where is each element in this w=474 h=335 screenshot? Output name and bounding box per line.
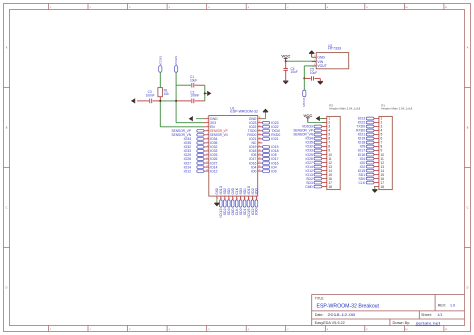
svg-text:10uF: 10uF [310, 71, 317, 75]
P1 pin 3 [374, 126, 379, 128]
svg-text:17: 17 [224, 198, 226, 200]
svg-text:VCC3V3: VCC3V3 [302, 98, 306, 107]
P2 pin 13 [322, 166, 327, 168]
resistor R1 [158, 88, 163, 97]
svg-text:1: 1 [207, 117, 208, 119]
P2 pin 14 [322, 170, 327, 172]
svg-text:22: 22 [244, 198, 246, 200]
svg-text:1: 1 [314, 56, 315, 58]
title block [312, 294, 465, 325]
svg-text:13: 13 [206, 166, 208, 168]
P1 pin 13 [374, 166, 379, 168]
svg-text:3: 3 [207, 125, 208, 127]
svg-text:18: 18 [381, 185, 385, 189]
P1 pin 17 [374, 182, 379, 184]
svg-text:VOUT: VOUT [317, 64, 326, 68]
svg-text:19: 19 [232, 198, 234, 200]
svg-text:serialx.net: serialx.net [416, 321, 442, 325]
svg-text:IO12: IO12 [184, 169, 191, 173]
ground flag P2 pin1 [320, 118, 325, 120]
svg-text:25: 25 [256, 198, 258, 200]
U1 right pin IO19 [258, 146, 263, 148]
op-amp U2 HT7333 [316, 53, 349, 69]
svg-text:Drawn By:: Drawn By: [393, 321, 411, 325]
svg-text:16: 16 [220, 198, 222, 200]
svg-text:1.0: 1.0 [450, 303, 455, 307]
ground flag [283, 80, 288, 82]
svg-text:26: 26 [259, 166, 261, 168]
svg-text:VCC: VCC [281, 54, 290, 59]
capacitor C3 [137, 100, 149, 102]
U1 left pin 2 3V3 [204, 122, 209, 124]
P1 pin 4 [374, 130, 379, 132]
U1 bottom pin SD2 [224, 196, 226, 200]
U1 right pin IO16 [258, 162, 263, 164]
junction [175, 100, 177, 102]
svg-text:ESP-WROOM-32 Breakout: ESP-WROOM-32 Breakout [317, 304, 380, 310]
connector P2 [327, 116, 340, 189]
P1 pin 5 [374, 134, 379, 136]
svg-text:7: 7 [207, 141, 208, 143]
svg-text:6: 6 [207, 137, 208, 139]
svg-text:34: 34 [259, 133, 261, 135]
P2 pin 7 [322, 142, 327, 144]
svg-text:CMD: CMD [305, 185, 313, 189]
svg-text:IO12: IO12 [210, 169, 217, 173]
pin 2 VIN [312, 61, 316, 63]
capacitor C1 [191, 83, 193, 88]
wire [286, 60, 317, 62]
svg-text:8: 8 [207, 145, 208, 147]
U1 right pin IO4 [258, 166, 263, 168]
svg-text:9: 9 [207, 150, 208, 152]
U1 left pin 12 IO27 [204, 162, 209, 164]
power flag VCC P2 pin2 [308, 122, 325, 124]
U1 left pin 14 IO12 [204, 170, 209, 172]
svg-text:IO0: IO0 [255, 188, 259, 195]
P1 pin 16 [374, 178, 379, 180]
P1 pin 2 [374, 122, 379, 124]
svg-text:Sheet:: Sheet: [421, 313, 432, 317]
svg-text:1/1: 1/1 [437, 313, 442, 317]
svg-text:29: 29 [259, 154, 261, 156]
U1 bottom pin SD0 [240, 196, 242, 200]
svg-text:VCC: VCC [303, 113, 312, 118]
ground flag [318, 80, 323, 82]
U1 right pin IO22 [258, 126, 263, 128]
svg-text:100nF: 100nF [190, 94, 199, 98]
power flag VCC3V3 down [303, 78, 305, 90]
U1 left pin 10 IO25 [204, 154, 209, 156]
svg-text:33: 33 [259, 137, 261, 139]
P2 pin 9 [322, 150, 327, 152]
U1 bottom pin CMD [232, 196, 234, 200]
connector P1 [379, 116, 392, 189]
P2 pin 18 [322, 186, 327, 188]
wire [160, 100, 176, 102]
pin 3 VOUT [312, 65, 316, 67]
svg-text:D: D [6, 287, 8, 290]
U1 left pin 13 IO14 [204, 166, 209, 168]
svg-text:38: 38 [259, 117, 261, 119]
P2 pin 3 [322, 126, 327, 128]
P2 pin 10 [322, 154, 327, 156]
svg-text:EasyEDA V5.9.22: EasyEDA V5.9.22 [315, 321, 345, 325]
U1 left pin 4 SENSOR_VP [204, 130, 209, 132]
U1 left pin 9 IO33 [204, 150, 209, 152]
U1 bottom pin GND [216, 196, 218, 200]
svg-text:TITLE:: TITLE: [315, 296, 325, 300]
svg-text:27: 27 [259, 162, 261, 164]
ruler letters [6, 47, 469, 290]
ground flag [207, 91, 209, 96]
P2 pin 16 [322, 178, 327, 180]
U1 left pin 1 GND [204, 118, 209, 120]
svg-text:23: 23 [248, 198, 250, 200]
wire [159, 101, 161, 127]
U1 right pin IO17 [258, 158, 263, 160]
svg-text:24: 24 [252, 198, 254, 200]
P1 pin 18 [374, 186, 379, 188]
wire [175, 101, 177, 123]
P2 pin 6 [322, 138, 327, 140]
svg-text:5: 5 [207, 133, 208, 135]
U1 right pin IO23 [258, 122, 263, 124]
svg-text:10uF: 10uF [291, 70, 298, 74]
svg-text:18: 18 [228, 198, 230, 200]
svg-text:15: 15 [217, 198, 219, 200]
svg-text:37: 37 [259, 121, 261, 123]
P2 pin 17 [322, 182, 327, 184]
U1 bottom pin IO2 [252, 196, 254, 200]
U1 left pin 8 IO32 [204, 146, 209, 148]
capacitor C2 [176, 100, 191, 102]
svg-text:IO0: IO0 [251, 169, 257, 173]
svg-text:2018-12-08: 2018-12-08 [328, 312, 356, 317]
svg-text:VCC3V3: VCC3V3 [174, 56, 178, 65]
ground flag [134, 99, 136, 104]
U1 right pin RXD0 [258, 134, 263, 136]
svg-text:IO0: IO0 [255, 208, 259, 215]
svg-text:REV:: REV: [438, 303, 446, 307]
U1 bottom pin SD1 [244, 196, 246, 200]
U1 left pin 3 EN [204, 126, 209, 128]
U1 right pin IO18 [258, 150, 263, 152]
svg-text:14: 14 [206, 170, 208, 172]
P1 pin 11 [374, 158, 379, 160]
wire [159, 72, 161, 87]
wire right rail [204, 85, 206, 101]
svg-text:35: 35 [259, 129, 261, 131]
U1 right pin TXD0 [258, 130, 263, 132]
svg-text:4: 4 [207, 129, 208, 131]
P1 pin 7 [374, 142, 379, 144]
P1 pin 10 [374, 154, 379, 156]
svg-text:IO0: IO0 [271, 169, 277, 173]
svg-text:36: 36 [259, 125, 261, 127]
U1 right pin IO0 [258, 170, 263, 172]
capacitor C5 [304, 77, 310, 79]
ground flag [311, 54, 313, 58]
svg-text:21: 21 [240, 198, 242, 200]
junction [303, 77, 305, 79]
P2 pin 4 [322, 130, 327, 132]
svg-text:32: 32 [259, 141, 261, 143]
wire [175, 72, 177, 101]
U1 bottom pin IO0 [255, 196, 257, 200]
U1 right pin NC [258, 142, 263, 144]
svg-text:10: 10 [206, 154, 208, 156]
ground flag U1 GND right [262, 118, 265, 120]
svg-text:2: 2 [314, 60, 315, 62]
svg-text:C: C [467, 207, 469, 210]
P1 pin 8 [374, 146, 379, 148]
P1 pin 14 [374, 170, 379, 172]
U1 left pin 11 IO26 [204, 158, 209, 160]
P1 pin 1 [374, 118, 379, 120]
svg-text:D: D [467, 287, 469, 290]
svg-text:10k: 10k [164, 92, 170, 96]
P2 pin 12 [322, 162, 327, 164]
ground flag U1 GND left [196, 118, 204, 120]
P1 pin 9 [374, 150, 379, 152]
svg-text:10uF: 10uF [190, 78, 197, 82]
U1 bottom pin SD3 [228, 196, 230, 200]
U1 left pin 5 SENSOR_VN [204, 134, 209, 136]
svg-text:VCC3V3: VCC3V3 [158, 56, 162, 65]
IC U1 ESP-WROOM-32 [209, 116, 258, 197]
svg-text:ESP-WROOM-32: ESP-WROOM-32 [230, 110, 258, 114]
junction [159, 100, 161, 102]
U1 right pin IO21 [258, 138, 263, 140]
wire top rail [176, 84, 191, 86]
P2 pin 11 [322, 158, 327, 160]
U1 left pin 7 IO35 [204, 142, 209, 144]
svg-text:100nF: 100nF [146, 94, 155, 98]
U1 bottom pin IO15 [248, 196, 250, 200]
svg-text:HT7333: HT7333 [328, 47, 341, 51]
P2 pin 8 [322, 146, 327, 148]
P2 pin 15 [322, 174, 327, 176]
junction [285, 60, 287, 62]
svg-text:Header Male 2.54_1x18: Header Male 2.54_1x18 [381, 107, 412, 111]
svg-text:IO21: IO21 [271, 137, 278, 141]
ruler ticks left/right [4, 88, 471, 248]
svg-text:18: 18 [328, 185, 332, 189]
svg-text:Header Male 2.54_1x18: Header Male 2.54_1x18 [329, 107, 360, 111]
svg-text:2: 2 [207, 121, 208, 123]
ground flag U1 GND bottom [216, 200, 218, 203]
ground flag P1 pin18 [375, 186, 377, 188]
U1 right pin GND [258, 118, 263, 120]
svg-text:30: 30 [259, 150, 261, 152]
P2 pin 2 [322, 122, 327, 124]
U1 bottom pin IO13 [220, 196, 222, 200]
svg-text:Date:: Date: [315, 313, 324, 317]
svg-text:12: 12 [206, 162, 208, 164]
svg-text:31: 31 [259, 145, 261, 147]
pin 1 GND [312, 56, 316, 58]
U1 bottom pin CLK [236, 196, 238, 200]
U1 right pin IO5 [258, 154, 263, 156]
junction [204, 92, 206, 94]
wire [304, 65, 316, 67]
P2 pin 5 [322, 134, 327, 136]
svg-text:C: C [6, 207, 8, 210]
svg-text:11: 11 [206, 158, 208, 160]
svg-text:28: 28 [259, 158, 261, 160]
svg-text:CLK: CLK [358, 181, 365, 185]
P1 pin 15 [374, 174, 379, 176]
svg-text:20: 20 [236, 198, 238, 200]
P1 pin 6 [374, 138, 379, 140]
P2 pin 1 [322, 118, 327, 120]
capacitor C4 [285, 61, 287, 68]
U1 left pin 6 IO34 [204, 138, 209, 140]
svg-text:25: 25 [259, 170, 261, 172]
P1 pin 12 [374, 162, 379, 164]
